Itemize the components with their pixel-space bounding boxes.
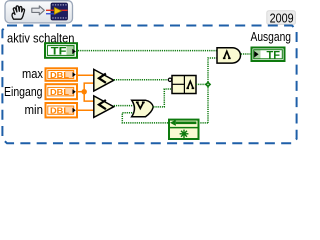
comparator 1 (less-than, max/Eingang): [94, 69, 114, 91]
wire: comparator 2 output to Or gate (dotted green): [114, 105, 133, 107]
wire: junction down-branch to comparator 2: [84, 92, 94, 101]
svg-text:DBL: DBL: [50, 87, 70, 97]
wire: Or gate output to compound node lower input (dotted green): [153, 89, 172, 107]
wire: feedback node output to Or gate lower input (dotted green): [122, 113, 168, 123]
invert bubble on compound node upper input: [168, 78, 171, 81]
numeric terminal DBL (Eingang): [46, 84, 78, 99]
svg-text:max: max: [22, 67, 44, 81]
boolean control terminal TF (aktiv schalten): [45, 43, 77, 58]
wire: junction vertical up to And gate lower input: [208, 58, 217, 123]
feedback node (with initializer): [168, 120, 200, 139]
svg-text:Ausgang: Ausgang: [251, 30, 292, 44]
2009 version label: [267, 11, 296, 25]
svg-text:min: min: [25, 103, 44, 117]
wire: And gate output to Ausgang indicator (dotted green): [241, 53, 250, 55]
toolbar tab: [5, 1, 73, 23]
wire: min to comparator 2 (orange): [78, 109, 94, 111]
junction (Eingang wire split): [82, 89, 87, 94]
comparator 2 (less-than, Eingang/min): [94, 96, 114, 118]
numeric terminal DBL (min): [46, 103, 78, 117]
Or gate: [132, 100, 154, 117]
boolean indicator terminal TF (Ausgang): [252, 48, 285, 62]
wire: comparator 1 output to compound node (dotted green): [114, 79, 169, 81]
wire: Eingang to junction (orange): [78, 91, 84, 93]
numeric terminal DBL (max): [46, 68, 78, 81]
wire: junction up-branch to comparator 1: [84, 83, 94, 92]
svg-text:2009: 2009: [270, 10, 294, 25]
svg-text:DBL: DBL: [50, 106, 70, 116]
wire: junction down to feedback node input: [200, 122, 208, 124]
wire: compound node output to junction (dotted green): [196, 83, 208, 85]
LabVIEW VI icon: [46, 3, 68, 20]
snippet dashed border: [2, 26, 296, 144]
svg-text:Eingang: Eingang: [4, 85, 43, 99]
compound arithmetic node (And): [172, 76, 196, 94]
wire: TF control to And gate (dotted green): [78, 50, 217, 52]
svg-text:TF: TF: [51, 46, 67, 58]
svg-text:TF: TF: [267, 49, 281, 61]
junction (boolean wire split): [205, 81, 211, 87]
wire: max to comparator 1 (orange): [78, 74, 94, 76]
hand tool icon: [12, 6, 24, 19]
svg-text:DBL: DBL: [50, 70, 70, 80]
And gate (top right): [217, 48, 241, 63]
run arrow icon: [32, 6, 45, 15]
